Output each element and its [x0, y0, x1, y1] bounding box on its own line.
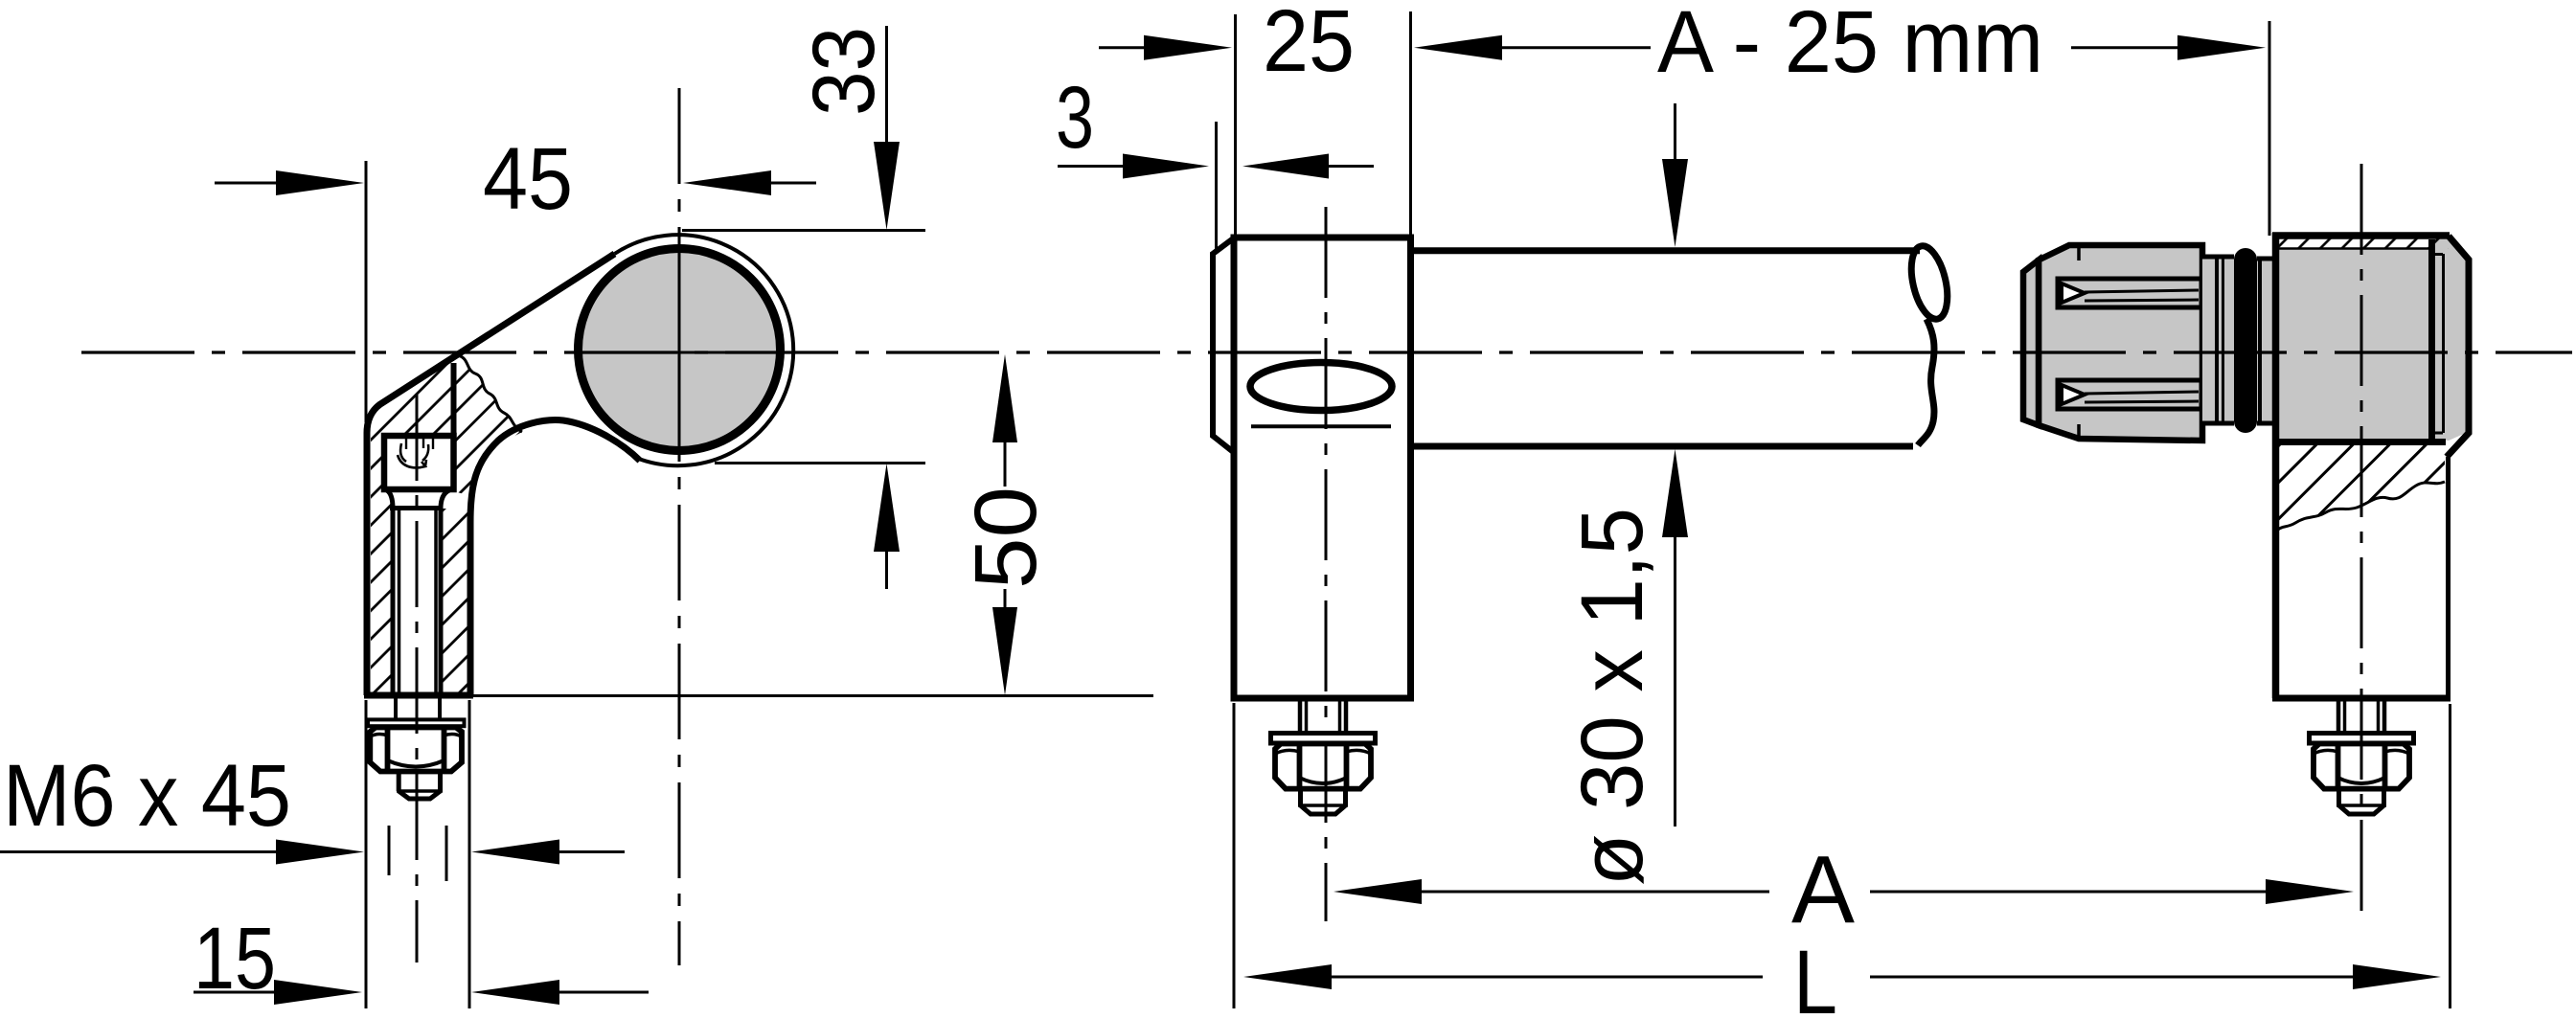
dimension 50	[957, 354, 1055, 695]
global horizontal centerline	[81, 351, 2572, 353]
svg-text:15: 15	[194, 910, 276, 1008]
centerline right clamp screw	[2360, 164, 2363, 921]
right clamp end cap outline	[2447, 237, 2469, 458]
dimension A - 25 mm	[1414, 0, 2266, 91]
svg-text:45: 45	[483, 130, 573, 228]
extension line clamp left (dim 25)	[1234, 14, 1237, 235]
screw tip (front)	[1298, 789, 1348, 814]
right clamp hatch below	[2278, 445, 2445, 530]
tube bottom edge	[1411, 443, 1914, 450]
clamp body front	[1234, 238, 1411, 698]
screw shank below arm	[394, 695, 398, 719]
dimension 15	[194, 910, 649, 1008]
dimension M6 x 45	[0, 747, 625, 865]
screw shank in slot	[398, 510, 401, 695]
dimension 45	[215, 130, 816, 228]
right clamp thin inner plate	[2442, 254, 2445, 433]
centerline of screw (left view)	[416, 395, 419, 962]
svg-text:A: A	[1791, 836, 1855, 943]
right clamp bottom edge of section	[2272, 439, 2446, 445]
extension line arm right face (lower)	[468, 700, 471, 1008]
hex nut (right)	[2314, 744, 2409, 789]
svg-text:33: 33	[795, 27, 893, 116]
svg-text:ø 30 x 1,5: ø 30 x 1,5	[1563, 508, 1661, 886]
spacer after O-ring	[2257, 259, 2272, 423]
right clamp left edge	[2272, 233, 2280, 698]
screw shank (right)	[2338, 698, 2384, 734]
centerline of front clamp screw	[1325, 207, 1328, 921]
right clamp arm right edge	[2446, 457, 2451, 698]
extension line right clamp outer face (L)	[2449, 704, 2451, 1008]
right clamp hatch top strip	[2279, 239, 2449, 249]
dimension tube diameter (o 30 x 1,5)	[1563, 103, 1688, 886]
centerline vertical through tube (left view)	[678, 88, 681, 965]
dimension 3	[1056, 69, 1374, 179]
clamp fillet outline	[470, 420, 640, 695]
hatch left strip of clamp arm	[371, 436, 393, 695]
right clamp top edge	[2272, 232, 2450, 239]
extension line left clamp left face (L)	[1233, 703, 1236, 1008]
slot hole (front)	[1250, 363, 1392, 411]
extension stubs screw diameter	[388, 826, 391, 875]
knob end cap	[2023, 260, 2039, 426]
svg-text:25: 25	[1263, 0, 1355, 90]
extension line right clamp left face (A-25)	[2268, 21, 2271, 236]
knob body	[2039, 245, 2202, 441]
knob knurl slot bottom	[2058, 380, 2201, 409]
extension line arm left face (upper)	[365, 161, 368, 422]
svg-text:M6 x 45: M6 x 45	[3, 747, 291, 845]
thread insert block	[384, 363, 454, 489]
svg-text:50: 50	[957, 487, 1055, 589]
svg-text:3: 3	[1056, 69, 1094, 167]
screw shank (front)	[1300, 695, 1346, 734]
hex nut (left view)	[370, 728, 462, 772]
right clamp sectioned body gray	[2279, 249, 2428, 440]
O-ring	[2234, 248, 2257, 433]
dimension 25	[1099, 0, 1355, 90]
right clamp arm bottom face	[2272, 695, 2451, 702]
washer (left view)	[368, 719, 465, 726]
tube cross-section	[579, 249, 781, 451]
clamp collar ring	[615, 235, 794, 465]
clamp arm bottom face	[364, 692, 473, 699]
extension line arm left face (lower)	[365, 700, 368, 1008]
washer (front)	[1271, 734, 1376, 744]
line below slot hole	[1251, 424, 1391, 428]
clamp outer outline left	[367, 254, 615, 695]
hatch right strip of clamp arm	[441, 509, 470, 695]
tube top edge	[1411, 247, 1921, 254]
wavy break-out line	[458, 355, 522, 432]
knob neck	[2202, 257, 2234, 423]
extension line flange (dim 3)	[1215, 122, 1218, 253]
svg-text:L: L	[1793, 932, 1837, 1019]
wavy boundary of broken-out section	[2278, 482, 2445, 530]
bolt slot in arm	[387, 490, 393, 695]
screw tip (right)	[2337, 789, 2386, 814]
tube centre cross	[623, 351, 753, 354]
washer (right)	[2310, 734, 2414, 744]
extension line clamp right (dim 25 / A-25)	[1409, 11, 1412, 235]
hatch upper patch (section of clamp body)	[372, 355, 522, 496]
dimension 33	[682, 26, 925, 589]
dimension L	[1243, 932, 2441, 1019]
tube break squiggle	[1905, 242, 1954, 445]
right clamp inner line	[2428, 239, 2435, 439]
knob knurl slot top	[2058, 279, 2201, 307]
reference line from bottom face	[473, 694, 1153, 697]
dimension A	[1334, 836, 2354, 943]
clamp flange (behind)	[1213, 237, 1236, 454]
hex nut (front)	[1275, 744, 1371, 789]
screw tip (left view)	[397, 772, 443, 800]
svg-text:A - 25 mm: A - 25 mm	[1657, 0, 2043, 91]
